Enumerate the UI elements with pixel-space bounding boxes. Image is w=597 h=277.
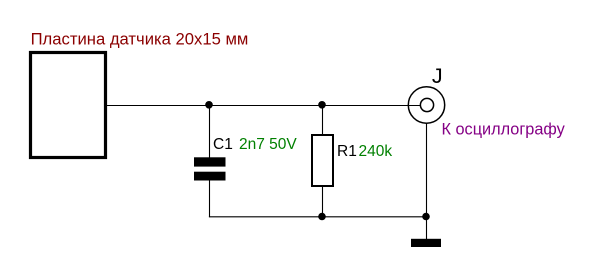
svg-text:J: J: [432, 64, 443, 88]
sensor plate (electrode 20x15 mm): [31, 53, 106, 158]
resistor R1 body: [312, 135, 333, 186]
connector J outer ring: [408, 87, 444, 123]
connector J center pin: [420, 98, 433, 111]
svg-text:C1: C1: [213, 136, 233, 153]
node: C1 top junction: [205, 101, 213, 109]
svg-text:Пластина датчика 20x15 мм: Пластина датчика 20x15 мм: [31, 30, 249, 49]
wire: bottom rail: [209, 216, 427, 218]
wire: plate to connector (top rail): [107, 105, 421, 107]
wire: top rail to C1: [209, 105, 211, 158]
wire: top rail to R1: [322, 105, 324, 135]
ground symbol: [411, 239, 441, 247]
svg-text:К осциллографу: К осциллографу: [442, 120, 566, 138]
capacitor C1 bottom plate: [194, 172, 226, 181]
svg-text:2n7 50V: 2n7 50V: [239, 136, 297, 153]
capacitor C1 top plate: [194, 157, 226, 166]
node: R1 bottom junction: [318, 213, 326, 221]
svg-text:240k: 240k: [359, 143, 393, 160]
node: ground junction: [422, 213, 430, 221]
node: R1 top junction: [318, 101, 326, 109]
wire: R1 to bottom rail: [322, 186, 324, 217]
wire: C1 to bottom rail: [209, 181, 211, 218]
wire: connector shield to ground: [426, 123, 428, 239]
svg-text:R1: R1: [337, 143, 357, 160]
